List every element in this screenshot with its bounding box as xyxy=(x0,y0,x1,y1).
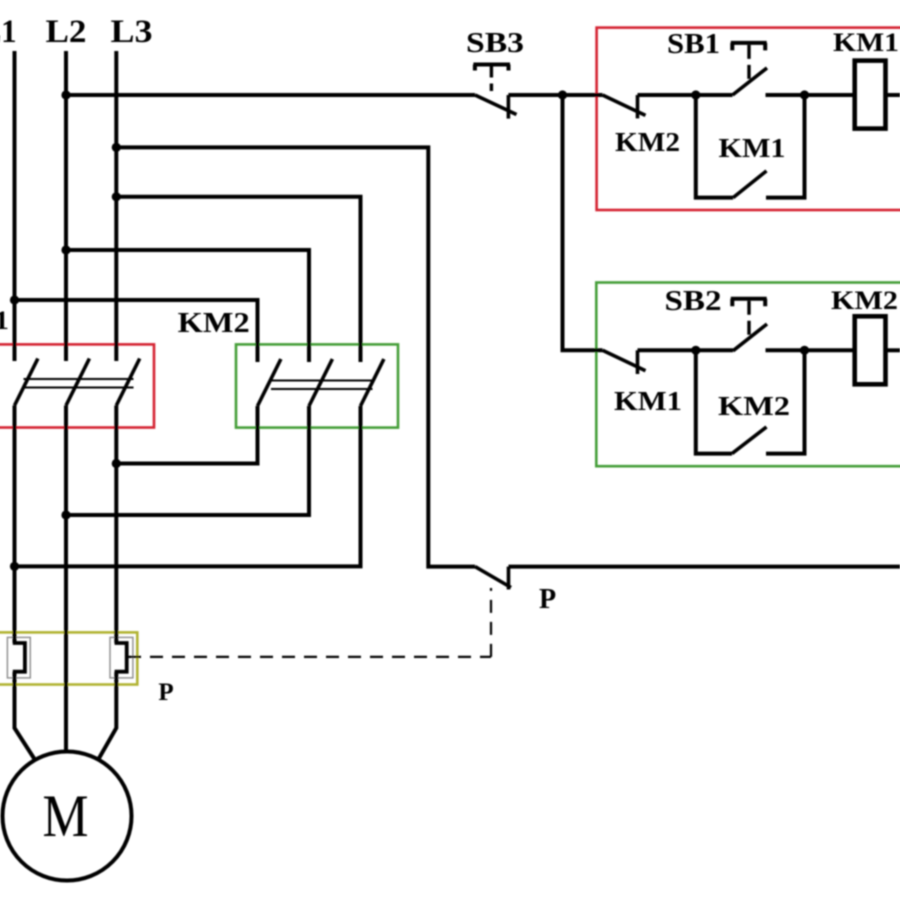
button SB3 cap bar xyxy=(473,65,510,71)
contact KM2 NC rung1 blade xyxy=(603,95,646,115)
contactor KM1 linkage bars xyxy=(24,379,134,388)
contact KM1 aux parallel left wire xyxy=(696,95,733,198)
thermal contact P tick xyxy=(507,567,511,590)
contact KM2 aux right wire xyxy=(766,350,805,453)
contactor KM1 pole1 blade xyxy=(15,359,38,406)
junction dot L1 lower xyxy=(10,562,19,571)
contactor KM1 pole2 blade xyxy=(66,359,89,406)
contact KM2 aux parallel left wire xyxy=(696,350,732,453)
svg-text:KM1: KM1 xyxy=(833,28,899,57)
wire P return line to right edge xyxy=(509,565,900,569)
contactor KM2 main box xyxy=(236,344,398,427)
junction dot rung2 branch xyxy=(558,90,567,99)
junction dot L3 P-line xyxy=(112,143,121,152)
wire L3 tap to KM2 pole3 top xyxy=(116,197,360,362)
junction dot rung1 aux right xyxy=(800,90,809,99)
button SB3 stem xyxy=(490,67,493,92)
contact KM1 aux blade xyxy=(733,171,766,198)
wire rung1 SB1 to coil xyxy=(766,93,855,97)
svg-text:L2: L2 xyxy=(46,14,87,50)
svg-text:KM1: KM1 xyxy=(614,386,682,416)
wire L2 tap to KM2 pole2 top xyxy=(66,250,309,362)
svg-text:KM2: KM2 xyxy=(178,307,250,339)
wire P-line from L3 down and to P contact xyxy=(116,147,475,566)
wire rung1 KM2NC to SB1 xyxy=(638,93,733,97)
svg-text:M: M xyxy=(43,783,89,849)
wire L2 phase vertical xyxy=(64,51,68,752)
svg-text:L1: L1 xyxy=(0,14,17,50)
contactor KM2 linkage bars xyxy=(271,381,373,390)
junction dot L2 pole2 tap xyxy=(61,245,70,254)
wire rung1 feeder from L2 to SB3 xyxy=(66,93,475,97)
control box rung2 (green) xyxy=(596,283,900,467)
wire rung2 branch from rung1 junction xyxy=(563,95,603,350)
svg-text:SB3: SB3 xyxy=(466,28,524,59)
wire rung1 from SB3 to KM2 NC xyxy=(508,93,602,97)
coil KM1 wire out xyxy=(886,93,900,97)
svg-text:KM1: KM1 xyxy=(719,133,786,163)
contactor KM2 pole2 blade xyxy=(309,359,332,406)
button SB1 blade xyxy=(733,68,768,95)
thermal relay heater 1 element xyxy=(13,643,25,672)
contact KM2 aux blade xyxy=(732,427,767,454)
contactor KM1 pole3 blade xyxy=(116,359,139,406)
thermal relay dashed link xyxy=(128,588,491,657)
button SB2 stem xyxy=(747,301,750,337)
junction dot L3 lower xyxy=(112,459,121,468)
wire rung2 KM1NC to SB2 xyxy=(638,348,734,352)
wire rung2 SB2 to coil xyxy=(766,348,855,352)
button SB1 cap bar xyxy=(731,43,767,51)
junction dot rung2 aux right xyxy=(800,346,809,355)
contactor KM2 pole1 blade xyxy=(258,359,281,406)
contactor KM1 main box xyxy=(0,344,154,427)
junction dot L1 pole1 tap xyxy=(10,295,19,304)
thermal relay heater 3 element xyxy=(115,643,127,672)
button SB2 blade xyxy=(733,324,767,351)
contact KM1 aux right wire xyxy=(766,95,805,198)
motor M circle xyxy=(3,752,132,881)
wire KM2 pole2 bottom to L2 line xyxy=(66,406,309,515)
junction dot L3 pole3 tap xyxy=(112,192,121,201)
wire L1 phase vertical xyxy=(15,51,36,760)
coil KM2 rect xyxy=(855,316,886,384)
contact KM1 NC rung2 tick xyxy=(636,350,640,374)
svg-text:KM2: KM2 xyxy=(831,286,898,315)
button SB3 blade xyxy=(475,95,517,115)
thermal relay P box xyxy=(0,632,137,684)
wire L1 tap to KM2 pole1 top xyxy=(15,300,258,362)
junction dot L2 rung1 xyxy=(61,90,70,99)
junction dot rung2 aux left xyxy=(691,346,700,355)
button SB3 tick xyxy=(507,95,511,119)
wire KM2 pole3 bottom to L1 line xyxy=(15,406,361,566)
control box rung1 (red) xyxy=(597,28,900,210)
svg-text:L3: L3 xyxy=(111,14,153,50)
svg-text:P: P xyxy=(158,679,173,706)
contact KM2 NC rung1 tick xyxy=(636,95,640,118)
wire L3 phase vertical xyxy=(98,51,116,760)
svg-text:SB2: SB2 xyxy=(665,286,722,317)
junction dot L2 lower xyxy=(61,510,70,519)
svg-text:KM1: KM1 xyxy=(0,306,9,335)
wire KM2 pole1 bottom to L3 line xyxy=(116,406,257,464)
thermal relay heater 3 frame xyxy=(110,637,133,678)
contactor KM2 pole3 blade xyxy=(361,359,384,406)
coil KM2 wire out xyxy=(886,348,900,352)
thermal contact P blade xyxy=(475,567,511,588)
svg-text:KM2: KM2 xyxy=(615,127,680,157)
junction dot rung1 aux left xyxy=(691,90,700,99)
thermal relay heater 1 frame xyxy=(7,637,30,678)
contact KM1 NC rung2 blade xyxy=(603,350,646,370)
button SB2 cap bar xyxy=(731,299,767,307)
coil KM1 rect xyxy=(855,61,886,129)
svg-text:KM2: KM2 xyxy=(718,391,790,421)
svg-text:P: P xyxy=(539,584,556,615)
svg-text:SB1: SB1 xyxy=(667,29,720,60)
button SB1 stem xyxy=(747,45,750,81)
